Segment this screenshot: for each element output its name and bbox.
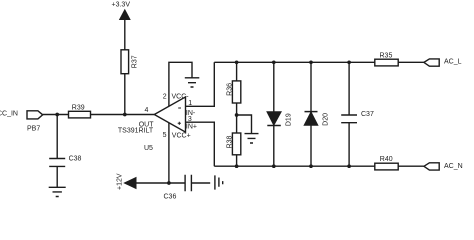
op-amp U1 triangle <box>154 97 185 132</box>
node top rail D19 <box>272 60 276 64</box>
node bottom rail D19 <box>272 164 276 168</box>
wire C37 to bottom rail <box>348 123 350 167</box>
svg-text:R36: R36 <box>227 83 234 96</box>
wire rail to R36 <box>236 62 238 81</box>
wire R39 to op-amp OUT <box>91 114 155 116</box>
capacitor C36 <box>185 175 191 192</box>
svg-text:VCC_IN: VCC_IN <box>0 110 18 117</box>
svg-text:TS391RILT: TS391RILT <box>118 128 154 135</box>
svg-text:VCC+: VCC+ <box>172 132 191 139</box>
connector AC_L <box>424 59 439 66</box>
capacitor C37 <box>341 115 357 123</box>
wire D20 vertical <box>310 62 312 166</box>
wire pin 3 IN+ to bottom rail <box>186 122 215 166</box>
ground at VCC- <box>185 78 200 87</box>
node bottom rail R38 <box>235 164 239 168</box>
svg-text:1: 1 <box>188 100 192 107</box>
resistor R40 <box>375 163 398 170</box>
wire R36 to R38 <box>236 103 238 133</box>
wire C38 to ground <box>56 166 58 187</box>
svg-text:5: 5 <box>163 132 167 139</box>
svg-text:U5: U5 <box>144 145 153 152</box>
diode D19 <box>267 112 281 126</box>
wire R37 upper <box>124 19 126 50</box>
node top rail R36 <box>235 60 239 64</box>
svg-text:AC_L: AC_L <box>444 59 462 66</box>
wire C36 to ground <box>191 182 210 184</box>
svg-text:2: 2 <box>163 94 167 101</box>
wire bottom rail <box>214 165 374 167</box>
resistor R35 <box>375 59 398 66</box>
svg-text:R35: R35 <box>380 53 393 60</box>
connector PB7 (VCC_IN port) <box>27 111 43 119</box>
svg-text:VCC-: VCC- <box>172 93 190 100</box>
capacitor C38 <box>49 159 65 167</box>
svg-text:D19: D19 <box>286 113 293 126</box>
node bottom rail D20 <box>309 164 313 168</box>
wire pin 1 IN- to top rail <box>186 62 215 106</box>
op-amp plus input mark <box>178 122 181 125</box>
node top rail D20 <box>309 60 313 64</box>
svg-text:R39: R39 <box>72 104 85 111</box>
wire R35 to AC_L <box>398 61 424 63</box>
svg-text:C37: C37 <box>361 111 374 118</box>
wire top rail <box>214 61 374 63</box>
svg-text:R37: R37 <box>131 55 138 68</box>
resistor R38 <box>232 133 240 155</box>
wire R40 to AC_N <box>398 165 424 167</box>
svg-text:3: 3 <box>188 116 192 123</box>
wire junction to ground stub <box>237 115 252 133</box>
svg-text:IN+: IN+ <box>186 123 197 130</box>
op-amp minus input mark <box>178 107 181 109</box>
resistor R36 <box>232 81 240 103</box>
svg-text:C38: C38 <box>69 156 82 163</box>
svg-text:+12V: +12V <box>117 173 124 190</box>
node top rail C37 <box>347 60 351 64</box>
svg-text:C36: C36 <box>164 193 177 200</box>
wire R37 lower <box>124 74 126 115</box>
ground at divider junction <box>245 134 259 143</box>
ground below C38 <box>49 187 66 196</box>
wire rail to C37 <box>348 62 350 115</box>
ground right of C36 <box>215 175 223 189</box>
node junction R37 tap <box>123 113 127 117</box>
node junction C38 tap <box>55 113 59 117</box>
svg-text:PB7: PB7 <box>27 126 40 133</box>
svg-text:AC_N: AC_N <box>444 163 463 170</box>
power +12V arrow <box>125 178 136 188</box>
svg-text:+3.3V: +3.3V <box>112 2 131 9</box>
wire junction to C38 <box>56 115 58 159</box>
svg-text:4: 4 <box>145 107 149 114</box>
svg-text:D20: D20 <box>323 113 330 126</box>
node junction VCC+ +12V <box>167 181 171 185</box>
wire D19 vertical <box>273 62 275 166</box>
resistor R37 <box>121 50 129 74</box>
power +3.3V arrow <box>120 10 130 19</box>
connector AC_N <box>424 163 439 170</box>
wire +12V rail <box>136 182 185 184</box>
wire pin 2 VCC- to ground <box>169 62 192 106</box>
node junction R36 R38 <box>235 113 239 117</box>
diode D20 <box>305 112 318 126</box>
node bottom rail C37 <box>347 164 351 168</box>
svg-text:R38: R38 <box>227 135 234 148</box>
svg-text:R40: R40 <box>380 156 393 163</box>
wire VCC_IN to R39 <box>43 114 69 116</box>
wire R38 to bottom rail <box>236 155 238 166</box>
wire pin 5 VCC+ down <box>168 123 170 183</box>
resistor R39 <box>69 111 91 118</box>
